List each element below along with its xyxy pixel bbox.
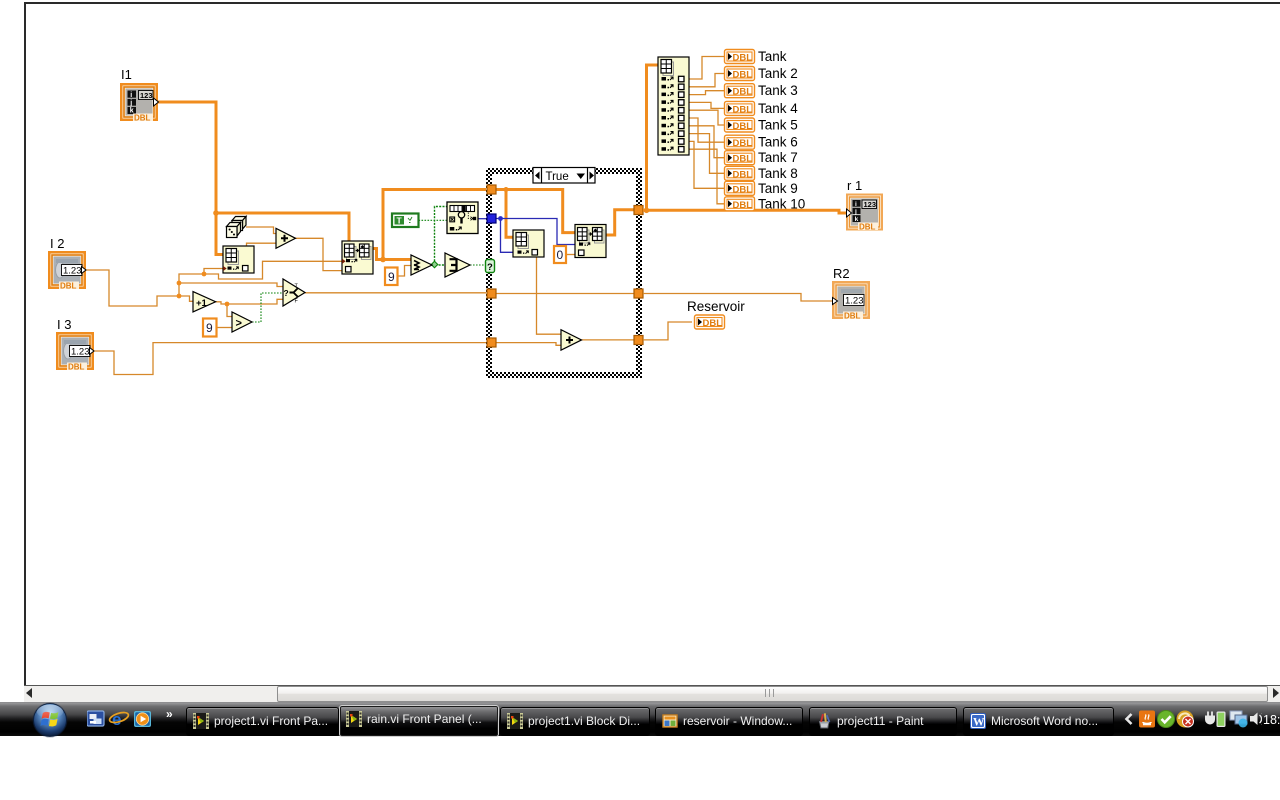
wire: index array row 4 to Tank 4: [689, 102, 725, 108]
taskbar button Microsoft Word no...: [963, 707, 1114, 736]
wire: diamond up to Search 1D Array array input (bool array zigzag): [435, 207, 448, 265]
tray icons: [1122, 708, 1262, 732]
start orb: [31, 701, 69, 739]
window frame top edge: [24, 2, 1280, 4]
svg-text:DBL: DBL: [733, 169, 753, 180]
svg-text:T: T: [397, 216, 403, 226]
svg-text:DBL: DBL: [134, 114, 151, 123]
add function 2: [561, 330, 582, 351]
Index Array node 1: [223, 246, 254, 273]
svg-text:DBL: DBL: [733, 121, 753, 132]
indicator Tank 7 terminal: [725, 151, 755, 165]
svg-text:1.23: 1.23: [845, 296, 864, 307]
svg-text:DBL: DBL: [733, 70, 753, 81]
svg-text:9: 9: [206, 321, 213, 335]
tunnel: case left-mid: [487, 289, 496, 298]
indicator Tank 2 terminal: [725, 67, 755, 81]
svg-text:True: True: [546, 171, 569, 183]
indicator Tank 1 terminal: [725, 50, 755, 64]
wire: index array row 2 to Tank 2: [689, 74, 725, 87]
svg-text:+1: +1: [196, 298, 208, 309]
wire: junction B up and to select t input: [179, 283, 283, 296]
junction G dot: [504, 187, 509, 192]
svg-text:Tank: Tank: [758, 49, 787, 64]
svg-text:>: >: [236, 318, 242, 330]
svg-text:DBL: DBL: [733, 184, 753, 195]
taskbar button reservoir - Window...: [655, 707, 803, 736]
svg-text:DBL: DBL: [733, 104, 753, 115]
increment +1 function: [193, 292, 216, 312]
indicator Tank 3 terminal: [725, 84, 755, 98]
wire: +1 output to junction E and select f input: [216, 299, 283, 304]
svg-text:Reservoir: Reservoir: [687, 299, 745, 314]
svg-text:Tank 2: Tank 2: [758, 66, 798, 81]
constant 9a: [385, 268, 398, 286]
taskbar button rain.vi Front Panel (...: [339, 705, 499, 737]
svg-text:k: k: [855, 216, 859, 223]
wire: junction F to GreaterOrEqual input: [383, 258, 411, 261]
indicator r1 (array numeric indicator): [846, 194, 883, 232]
control I3 (numeric control): [56, 332, 94, 372]
indicator Reservoir terminal: [695, 315, 725, 329]
svg-text:DBL: DBL: [60, 282, 77, 291]
window frame left edge: [24, 2, 26, 686]
tunnel: case top-left (array in): [487, 185, 496, 194]
svg-text:?: ?: [284, 288, 289, 298]
wire: bottom-right tunnel to Reservoir: [643, 322, 692, 340]
svg-text:Tank 6: Tank 6: [758, 135, 798, 150]
select function: [283, 279, 305, 306]
svg-text:I1: I1: [121, 67, 132, 82]
clock: [1263, 713, 1280, 727]
wire: junction A to Replace Array Subset 1 array input: [216, 213, 349, 242]
svg-text:Tank 7: Tank 7: [758, 150, 798, 165]
wire: junction D to Replace Array Subset 1 index input: [204, 261, 342, 279]
wire: GreaterOrEqual output via diamond to Or Array Elements (bool array zigzag): [432, 264, 445, 266]
svg-text:?: ?: [487, 262, 493, 273]
junction H dot: [644, 208, 650, 214]
control I1 (array numeric control): [120, 83, 159, 123]
wire: case left-mid tunnel across to right-mid tunnel: [492, 293, 636, 295]
wire: index array row 8 to Tank 8: [689, 134, 725, 174]
svg-text:0: 0: [557, 248, 564, 262]
svg-text:1.23: 1.23: [71, 347, 90, 358]
wire: junction B to +1 input: [179, 296, 193, 301]
svg-text:DBL: DBL: [733, 154, 753, 165]
tunnel: case bottom-right: [634, 336, 643, 345]
wire: I2 output routing: [86, 270, 179, 306]
constant 9b: [203, 319, 217, 337]
svg-text:DBL: DBL: [733, 87, 753, 98]
indicator Tank 6 terminal: [725, 135, 755, 149]
wire: index array row 7 to Tank 7: [689, 126, 725, 158]
svg-text:9: 9: [388, 270, 395, 284]
wire: Index Array 1 output to Add lower input: [247, 243, 277, 246]
indicator Tank 5 terminal: [725, 118, 755, 132]
case selector question tunnel: [486, 260, 495, 273]
Index Array node 2: [513, 230, 544, 257]
svg-text:Tank 8: Tank 8: [758, 166, 798, 181]
boolean True constant: [392, 214, 419, 228]
svg-text:Tank 5: Tank 5: [758, 118, 798, 133]
wire: right-mid tunnel to R2: [643, 294, 832, 302]
taskbar button project1.vi Front Pa...: [186, 707, 339, 736]
wire: blue tunnel to Index Array 2 index input and Replace 2 index input: [496, 219, 575, 245]
greater-than function: [232, 312, 252, 332]
bool junction diamond: [431, 261, 438, 268]
junction F dot: [380, 257, 386, 263]
wire: index array row 6 to Tank 6: [689, 118, 725, 142]
wire: index array row 1 to Tank 1: [689, 57, 725, 80]
svg-text:I 3: I 3: [57, 317, 71, 332]
svg-text:DBL: DBL: [68, 363, 85, 372]
svg-text:r 1: r 1: [847, 178, 862, 193]
indicator Tank 9 terminal: [725, 181, 755, 195]
svg-text:DBL: DBL: [733, 200, 753, 211]
wire: junction C up to junction D: [179, 274, 204, 283]
wire: junction D to Index Array 1 index input: [204, 269, 223, 275]
taskbar button project1.vi Block Di...: [500, 707, 650, 736]
wire: I3 output to case bottom-left tunnel: [94, 343, 488, 375]
wire: constant 9a to GreaterOrEqual lower input: [398, 266, 412, 277]
indicator Tank 4 terminal: [725, 101, 755, 115]
svg-text:123: 123: [864, 200, 877, 209]
svg-text:Tank 4: Tank 4: [758, 101, 798, 116]
tunnel: case top-right: [634, 206, 643, 215]
svg-text:Tank 9: Tank 9: [758, 181, 798, 196]
add function: [276, 228, 296, 248]
wire: bottom-left tunnel to Add 2 lower input: [492, 343, 561, 346]
or-array-elements function: [445, 253, 470, 277]
wire: index array row 5 to Tank 5: [689, 110, 725, 125]
wire: I1 to junction A (thick orange array): [156, 102, 216, 213]
wire: index array row 9 to Tank 9: [689, 141, 725, 188]
control I2 (numeric control): [48, 251, 86, 291]
wire: top-left tunnel to Index Array 2 and Replace 2 (thick): [495, 190, 513, 238]
wire: constant 0 to Replace 2 input: [566, 254, 575, 256]
wire: Replace 2 output to top-right tunnel (thick): [606, 210, 636, 235]
quick launch icons: [87, 710, 157, 730]
indicator Tank 8 terminal: [725, 166, 755, 180]
wire: junction F up to case top-left tunnel (thick array): [383, 190, 488, 260]
blue junction dot: [498, 216, 503, 221]
svg-text:Tank 3: Tank 3: [758, 83, 798, 98]
svg-text:DBL: DBL: [859, 223, 876, 232]
svg-text:1.23: 1.23: [63, 266, 82, 277]
svg-text:DBL: DBL: [733, 138, 753, 149]
svg-text:j: j: [129, 100, 132, 107]
indicator Tank 10 terminal: [725, 197, 755, 211]
wire: Replace Array Subset 1 output to junction F: [373, 249, 383, 260]
tunnel: case right-mid: [634, 289, 643, 298]
svg-text:DBL: DBL: [733, 53, 753, 64]
svg-text:Tank 10: Tank 10: [758, 196, 805, 211]
wire: Search 1D Array output to blue tunnel (int): [478, 218, 488, 220]
Replace Array Subset node 2: [575, 225, 606, 258]
wire: dice output to Add upper input: [246, 227, 276, 234]
wire: Or Array Elements output to case selector (bool dotted): [470, 264, 486, 266]
svg-text:i: i: [130, 92, 132, 99]
wire: Add 2 output to bottom-right tunnel: [582, 339, 637, 341]
wire: index array row 3 to Tank 3: [689, 91, 725, 95]
Search 1D Array node: [447, 202, 478, 234]
svg-text:i: i: [855, 201, 857, 208]
wire: Select output to case left middle tunnel: [305, 292, 488, 294]
wire: Greater output to Select s input (bool dotted): [252, 293, 283, 322]
svg-text:DBL: DBL: [844, 312, 861, 321]
Replace Array Subset node 1: [342, 241, 373, 274]
svg-text:123: 123: [140, 91, 153, 100]
svg-text:I 2: I 2: [50, 236, 64, 251]
wire: Index Array 2 output down to Add 2 upper input: [537, 257, 562, 334]
wire: constant 9b to Greater lower input: [216, 327, 232, 329]
case structure border: [486, 168, 642, 378]
random number dice node: [227, 217, 247, 238]
tunnel: case left blue (int in): [487, 214, 496, 223]
taskbar button project11 - Paint: [809, 707, 957, 736]
wire: Add output to Replace Array Subset 1 element input: [296, 238, 343, 270]
greater-or-equal function: [411, 255, 432, 275]
svg-text:j: j: [854, 208, 857, 215]
wire: T constant to Search 1D Array element input (bool dotted): [419, 219, 448, 221]
wire: top-right tunnel to junction H, up to big Index Array, right to r1: [643, 210, 847, 213]
constant 0: [554, 246, 566, 263]
junction A dot: [213, 210, 219, 216]
big Index Array node (10 outputs): [658, 57, 689, 155]
wire: junction A down to Index Array 1 input: [216, 213, 223, 255]
tunnel: case bottom-left: [487, 338, 496, 347]
wire: index array row 10 to Tank 10: [689, 149, 725, 204]
case selector label True: [533, 168, 595, 184]
svg-text:W: W: [973, 717, 985, 729]
junction E dot: [225, 302, 230, 307]
wire: junction E down to Greater input: [227, 304, 232, 317]
svg-text:R2: R2: [833, 266, 850, 281]
svg-text:DBL: DBL: [703, 318, 723, 329]
svg-text:F: F: [295, 299, 299, 305]
indicator R2 (numeric indicator): [832, 281, 870, 321]
junction dots B C D: [177, 294, 182, 299]
